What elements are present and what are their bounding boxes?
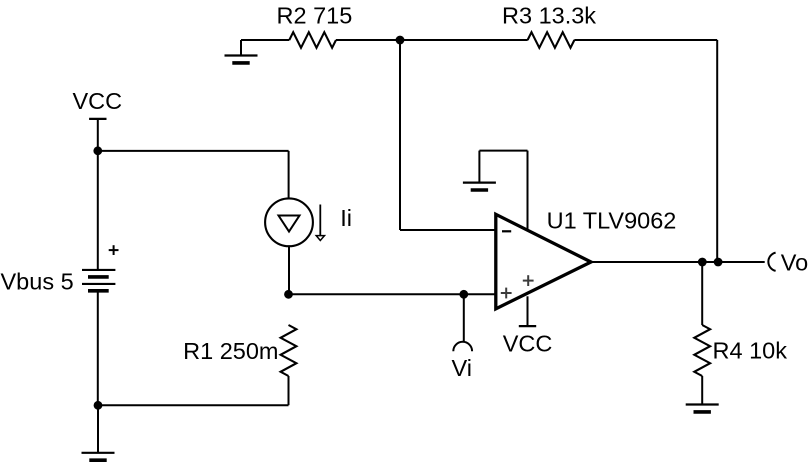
wire: down to current source top <box>288 151 290 199</box>
svg-text:U1 TLV9062: U1 TLV9062 <box>547 208 677 234</box>
svg-text:VCC: VCC <box>503 331 553 357</box>
ground GND1 (left of R2) <box>225 40 258 63</box>
battery Vbus (plates) <box>82 270 115 291</box>
power symbol VCC (top left) <box>89 119 106 151</box>
wire: into op-amp inverting input <box>400 229 496 231</box>
wire: R2 right lead to node FB <box>336 39 400 41</box>
resistor R1 <box>281 325 297 376</box>
svg-text:R1 250m: R1 250m <box>183 338 278 364</box>
wire: current source bottom to node N1 <box>288 246 290 294</box>
wire: battery bottom to node GNDB <box>97 291 99 405</box>
wire: R1 bottom lead <box>288 376 290 405</box>
ground GND3 (battery) <box>82 405 115 460</box>
op-amp U1 triangle <box>496 214 591 308</box>
ground GND4 (below R4) <box>686 376 719 412</box>
svg-text:VCC: VCC <box>72 88 122 114</box>
node VCC junction dot <box>93 146 102 155</box>
svg-text:Vbus 5: Vbus 5 <box>1 268 74 294</box>
node VOUT junction dot (feedback branch) <box>714 258 723 267</box>
wire: node N1 to op-amp non-inverting input <box>289 293 496 295</box>
power symbol VCC (below op-amp) <box>519 325 536 327</box>
wire: VCC node down to battery top plate <box>97 151 99 270</box>
node VOUT junction dot (R4 branch) <box>698 258 707 267</box>
resistor R4 <box>694 325 710 376</box>
svg-text:R3 13.3k: R3 13.3k <box>502 3 596 29</box>
wire: bottom horizontal to battery minus <box>98 404 289 406</box>
resistor R2 <box>289 32 336 48</box>
wire: node FB to R3 left lead <box>400 39 528 41</box>
svg-text:Vo: Vo <box>781 249 808 275</box>
wire: right vertical from corner down to output node <box>716 40 718 262</box>
port Vo (arc) <box>768 253 775 271</box>
op-amp V+ marker <box>523 280 534 282</box>
wire: R3 right lead to top-right corner <box>574 39 717 41</box>
wire: op-amp V- pin up and over <box>479 151 527 230</box>
current direction arrow <box>316 205 324 241</box>
wire: VOUT down to R4 <box>701 262 703 325</box>
op-amp plus input marker <box>501 292 512 294</box>
wire: node FB down to inverting input level <box>399 40 401 230</box>
node FB junction dot <box>396 36 405 45</box>
battery plus sign <box>109 249 119 251</box>
current source Ii (circle) <box>265 198 313 246</box>
node GNDB junction dot <box>94 401 103 410</box>
port Vi (arc) <box>453 342 472 351</box>
ground GND2 (op-amp V-) <box>463 151 496 190</box>
wire: VCC node to current source branch (top horizontal) <box>98 150 289 152</box>
wire: op-amp output to Vo port <box>591 261 765 263</box>
node N1 junction dot <box>284 290 293 299</box>
current source inner triangle <box>279 216 300 232</box>
svg-text:Vi: Vi <box>452 355 472 381</box>
svg-text:Ii: Ii <box>340 205 352 231</box>
wire: Vi stub down <box>463 294 465 342</box>
wire: op-amp V+ pin down <box>527 296 529 326</box>
op-amp minus input marker <box>502 230 511 232</box>
node Vi junction dot <box>459 290 468 299</box>
resistor R3 <box>528 32 575 48</box>
wire: GND1 to R2 left lead <box>241 39 289 41</box>
svg-text:R2 715: R2 715 <box>277 3 353 29</box>
svg-text:R4 10k: R4 10k <box>713 338 788 364</box>
